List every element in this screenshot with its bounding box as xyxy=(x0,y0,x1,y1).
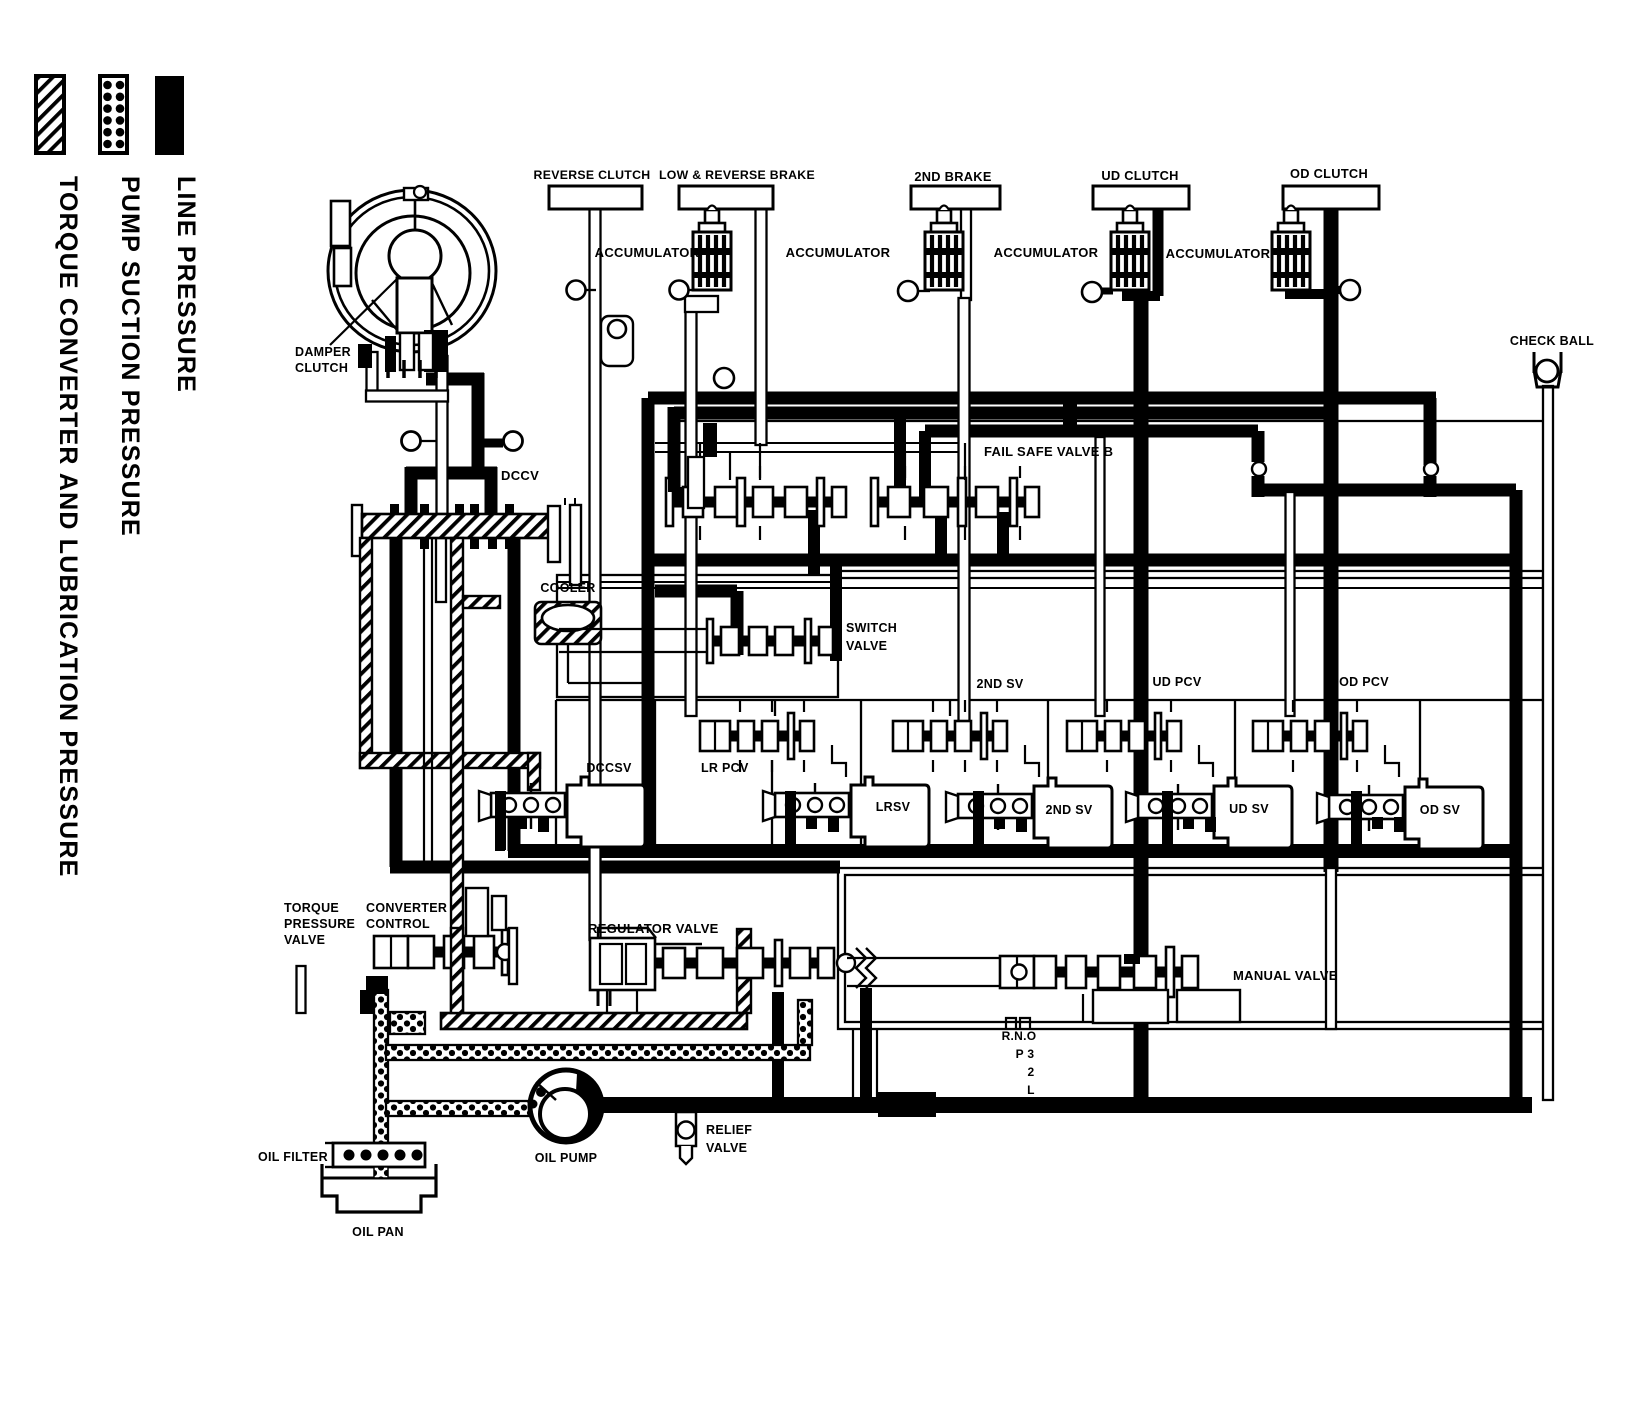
svg-text:CONVERTER: CONVERTER xyxy=(366,901,447,915)
svg-text:RELIEF: RELIEF xyxy=(706,1123,752,1137)
svg-text:OIL FILTER: OIL FILTER xyxy=(258,1150,328,1164)
svg-text:CHECK BALL: CHECK BALL xyxy=(1510,334,1594,348)
svg-text:2: 2 xyxy=(1028,1065,1035,1079)
svg-text:CONTROL: CONTROL xyxy=(366,917,430,931)
svg-text:ACCUMULATOR: ACCUMULATOR xyxy=(595,245,700,260)
svg-text:OD PCV: OD PCV xyxy=(1339,675,1389,689)
svg-text:OD CLUTCH: OD CLUTCH xyxy=(1290,166,1368,181)
svg-text:ACCUMULATOR: ACCUMULATOR xyxy=(1166,246,1271,261)
svg-text:LOW & REVERSE BRAKE: LOW & REVERSE BRAKE xyxy=(659,168,815,182)
svg-text:ACCUMULATOR: ACCUMULATOR xyxy=(994,245,1099,260)
svg-text:CLUTCH: CLUTCH xyxy=(295,361,348,375)
svg-text:OD SV: OD SV xyxy=(1420,803,1461,817)
svg-text:PUMP SUCTION PRESSURE: PUMP SUCTION PRESSURE xyxy=(116,176,144,537)
svg-text:UD CLUTCH: UD CLUTCH xyxy=(1101,168,1178,183)
svg-text:OIL PAN: OIL PAN xyxy=(352,1225,404,1239)
svg-text:UD SV: UD SV xyxy=(1229,802,1269,816)
svg-text:ACCUMULATOR: ACCUMULATOR xyxy=(786,245,891,260)
svg-text:LINE PRESSURE: LINE PRESSURE xyxy=(172,176,200,393)
svg-text:DCCSV: DCCSV xyxy=(586,761,632,775)
svg-text:COOLER: COOLER xyxy=(540,581,595,595)
svg-text:VALVE: VALVE xyxy=(284,933,325,947)
svg-text:DAMPER: DAMPER xyxy=(295,345,351,359)
svg-text:2ND SV: 2ND SV xyxy=(1046,803,1093,817)
svg-text:REVERSE CLUTCH: REVERSE CLUTCH xyxy=(534,168,651,182)
svg-text:DCCV: DCCV xyxy=(501,468,539,483)
svg-text:SWITCH: SWITCH xyxy=(846,621,897,635)
svg-text:OIL PUMP: OIL PUMP xyxy=(535,1151,598,1165)
svg-text:R.N.O: R.N.O xyxy=(1002,1029,1037,1043)
svg-text:PRESSURE: PRESSURE xyxy=(284,917,355,931)
svg-text:TORQUE: TORQUE xyxy=(284,901,339,915)
svg-text:MANUAL VALVE: MANUAL VALVE xyxy=(1233,968,1338,983)
svg-text:VALVE: VALVE xyxy=(846,639,887,653)
svg-text:2ND SV: 2ND SV xyxy=(977,677,1024,691)
svg-text:2ND BRAKE: 2ND BRAKE xyxy=(914,169,992,184)
svg-text:LRSV: LRSV xyxy=(876,800,911,814)
svg-text:FAIL SAFE VALVE B: FAIL SAFE VALVE B xyxy=(984,444,1113,459)
svg-text:LR PCV: LR PCV xyxy=(701,761,749,775)
svg-text:TORQUE CONVERTER AND LUBRICATI: TORQUE CONVERTER AND LUBRICATION PRESSUR… xyxy=(54,176,82,878)
svg-text:VALVE: VALVE xyxy=(706,1141,747,1155)
svg-text:UD PCV: UD PCV xyxy=(1152,675,1201,689)
svg-text:P 3: P 3 xyxy=(1016,1047,1035,1061)
svg-text:L: L xyxy=(1027,1083,1035,1097)
svg-text:REGULATOR VALVE: REGULATOR VALVE xyxy=(588,921,719,936)
